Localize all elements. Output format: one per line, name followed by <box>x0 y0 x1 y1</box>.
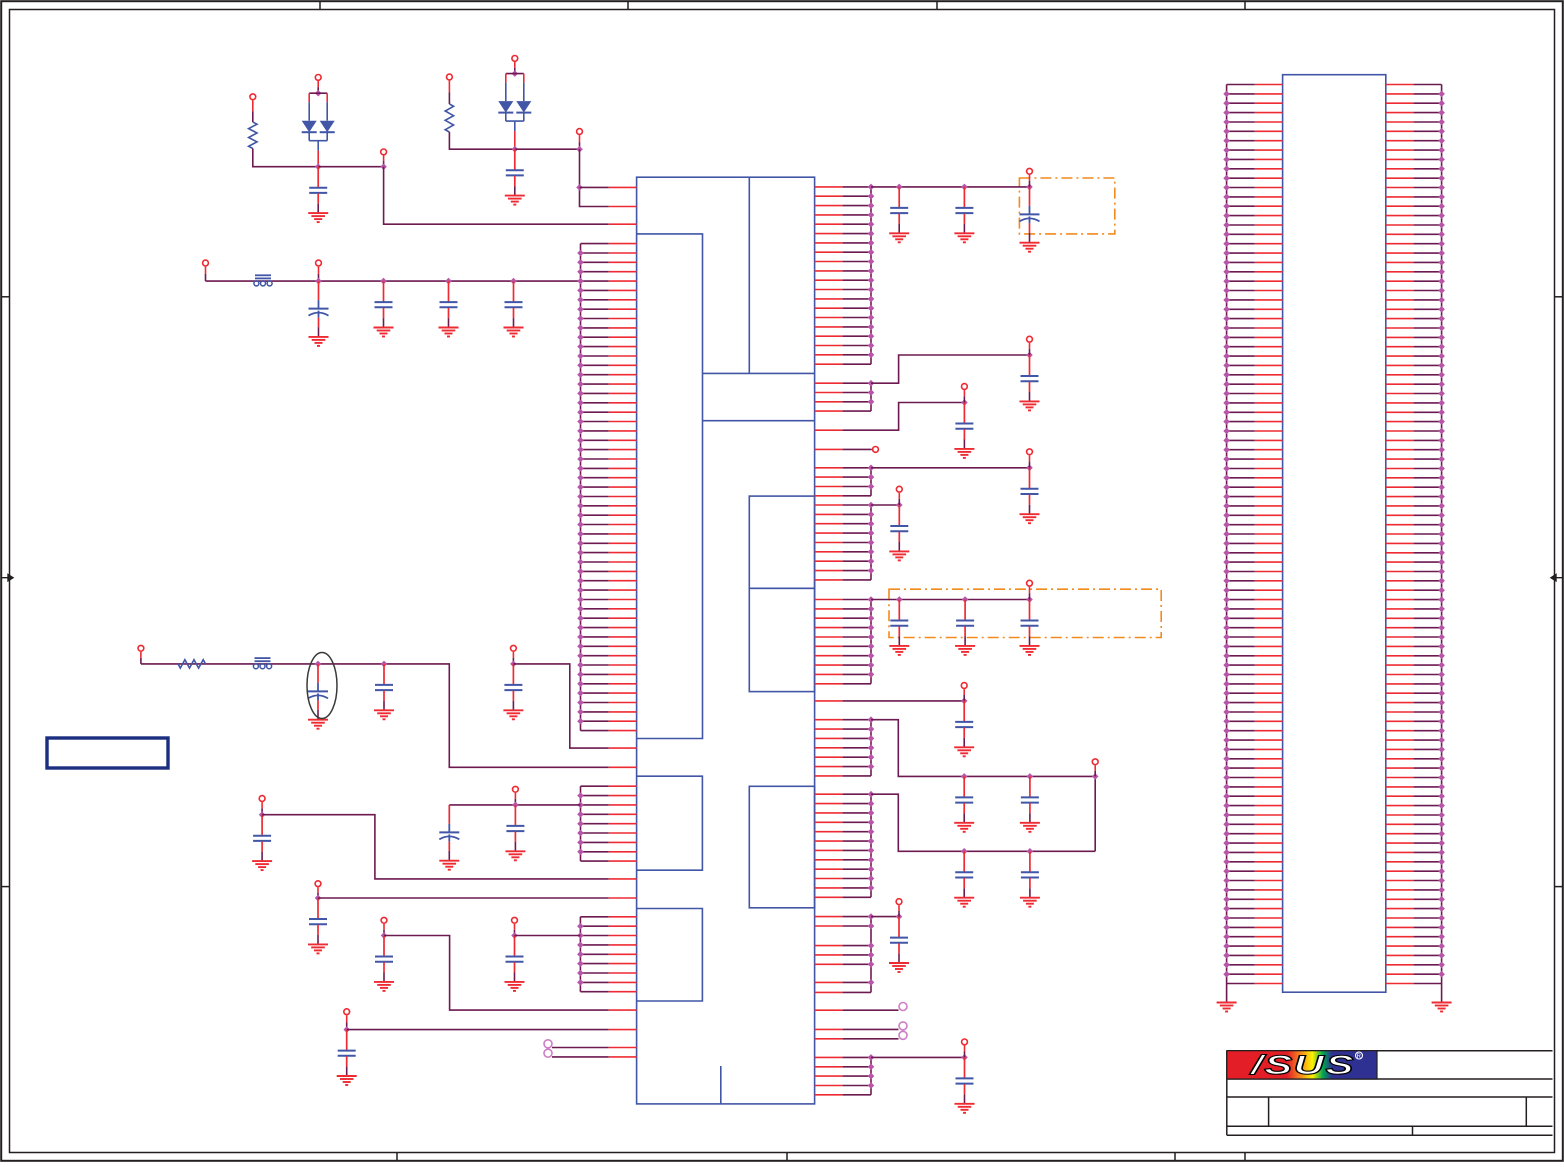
node <box>577 830 584 837</box>
bus wire LG1 <box>580 244 582 731</box>
ground <box>505 981 525 983</box>
pin <box>1386 243 1414 245</box>
pin <box>1386 814 1414 816</box>
node <box>962 596 969 603</box>
pin <box>1386 683 1414 685</box>
node <box>1223 578 1230 585</box>
wire <box>871 916 899 918</box>
capacitor <box>898 505 900 525</box>
pin <box>1386 795 1414 797</box>
pin no-connect <box>815 1009 843 1011</box>
pin <box>581 505 609 507</box>
node <box>1438 774 1445 781</box>
pin <box>815 793 843 795</box>
pin <box>1227 655 1255 657</box>
node <box>868 979 875 986</box>
capacitor <box>898 917 900 937</box>
capacitor <box>1029 355 1031 375</box>
node <box>868 1073 875 1080</box>
pin <box>815 756 843 758</box>
node <box>1223 840 1230 847</box>
ground <box>954 746 974 748</box>
node <box>1223 812 1230 819</box>
node <box>1223 353 1230 360</box>
node <box>1438 568 1445 575</box>
pin <box>815 532 843 534</box>
node <box>868 567 875 574</box>
pin <box>1386 336 1414 338</box>
wire <box>871 1056 965 1058</box>
node <box>1223 437 1230 444</box>
node <box>1223 709 1230 716</box>
ground <box>1020 400 1040 402</box>
node rail2-2 <box>381 661 388 668</box>
node <box>1223 465 1230 472</box>
border tick top <box>627 1 629 9</box>
pin <box>1227 430 1255 432</box>
node <box>1438 727 1445 734</box>
node <box>1223 774 1230 781</box>
node <box>1223 971 1230 978</box>
ground <box>374 709 394 711</box>
node <box>577 287 584 294</box>
node <box>577 512 584 519</box>
ground <box>889 645 909 647</box>
node <box>868 1082 875 1089</box>
bus wire RG5 <box>870 600 872 684</box>
wire <box>449 804 580 806</box>
node <box>1438 287 1445 294</box>
node <box>1223 119 1230 126</box>
node <box>577 634 584 641</box>
node <box>577 577 584 584</box>
bus wire RG7 <box>870 794 872 897</box>
node <box>1223 624 1230 631</box>
pin <box>1227 271 1255 273</box>
terminal L5 <box>315 881 321 887</box>
pin <box>1227 393 1255 395</box>
pin <box>581 655 609 657</box>
pin <box>815 887 843 889</box>
pin <box>581 346 609 348</box>
pin <box>1227 983 1255 985</box>
node <box>1438 306 1445 313</box>
pin <box>1386 589 1414 591</box>
pin <box>1227 486 1255 488</box>
pin <box>1227 458 1255 460</box>
node <box>1223 91 1230 98</box>
node <box>868 866 875 873</box>
ground <box>308 719 328 721</box>
pin <box>1227 973 1255 975</box>
node <box>1223 915 1230 922</box>
node <box>1223 446 1230 453</box>
node <box>868 314 875 321</box>
pin <box>580 944 608 946</box>
pin <box>1227 233 1255 235</box>
node <box>1438 212 1445 219</box>
pin <box>815 345 843 347</box>
node <box>1223 737 1230 744</box>
node <box>1223 259 1230 266</box>
pin <box>581 318 609 320</box>
node R2 <box>1026 352 1033 359</box>
pin <box>1227 112 1255 114</box>
pin <box>1386 552 1414 554</box>
pin <box>581 392 609 394</box>
pin <box>1227 383 1255 385</box>
node <box>1438 718 1445 725</box>
ic U1 inner block G <box>749 786 814 908</box>
pin <box>1386 842 1414 844</box>
node <box>868 643 875 650</box>
pin <box>815 849 843 851</box>
wire <box>262 815 609 879</box>
terminal L4 <box>513 786 519 792</box>
pin <box>1227 542 1255 544</box>
pin <box>1227 748 1255 750</box>
node <box>868 952 875 959</box>
pin <box>1386 149 1414 151</box>
node <box>868 230 875 237</box>
ground <box>1020 822 1040 824</box>
pin <box>1227 102 1255 104</box>
pin <box>1227 561 1255 563</box>
node <box>1223 587 1230 594</box>
node <box>868 606 875 613</box>
pin <box>815 627 843 629</box>
node <box>868 465 875 472</box>
pin <box>815 617 843 619</box>
no-connect circle <box>899 1022 907 1030</box>
node <box>868 754 875 761</box>
pin <box>581 785 609 787</box>
bus wire RG2 <box>870 383 872 411</box>
pin <box>581 336 609 338</box>
node <box>577 671 584 678</box>
node <box>1223 868 1230 875</box>
pin <box>1386 505 1414 507</box>
pin <box>1386 571 1414 573</box>
node <box>577 437 584 444</box>
node <box>1438 606 1445 613</box>
node <box>1223 802 1230 809</box>
node <box>1223 550 1230 557</box>
wire <box>871 794 1095 851</box>
bus wire LG2 <box>580 786 582 861</box>
pin <box>815 1075 843 1077</box>
node rail1-2 <box>380 278 387 285</box>
pin <box>581 486 609 488</box>
terminal D2 top <box>512 56 518 62</box>
pin <box>1386 327 1414 329</box>
node <box>1438 400 1445 407</box>
node <box>1223 400 1230 407</box>
pin <box>1227 346 1255 348</box>
node <box>1438 653 1445 660</box>
pin <box>1386 308 1414 310</box>
node R8 <box>961 698 968 705</box>
pin <box>1227 645 1255 647</box>
node <box>1223 231 1230 238</box>
no-connect circle <box>899 1031 907 1039</box>
pin <box>1386 833 1414 835</box>
wire <box>580 149 609 206</box>
node <box>868 810 875 817</box>
bus wire RG1 <box>870 187 872 364</box>
pin <box>1386 496 1414 498</box>
node L3 <box>259 811 266 818</box>
node <box>577 652 584 659</box>
pin <box>815 991 843 993</box>
pin <box>1227 617 1255 619</box>
pin <box>581 589 609 591</box>
node <box>577 681 584 688</box>
pin <box>581 832 609 834</box>
node <box>868 520 875 527</box>
no-connect circle <box>544 1040 552 1048</box>
node <box>868 913 875 920</box>
svg-text:/SUS: /SUS <box>1249 1050 1355 1080</box>
border tick left <box>1 296 9 298</box>
node <box>577 559 584 566</box>
pin <box>1386 233 1414 235</box>
pin <box>1227 823 1255 825</box>
ferrite bead FB2 <box>255 660 271 662</box>
node <box>868 726 875 733</box>
pin <box>1386 945 1414 947</box>
node <box>577 353 584 360</box>
node <box>577 587 584 594</box>
node rail2-3 <box>510 661 517 668</box>
node <box>868 380 875 387</box>
node <box>868 240 875 247</box>
capacitor <box>898 600 900 620</box>
pin <box>815 233 843 235</box>
node <box>868 961 875 968</box>
pin <box>1386 926 1414 928</box>
pin <box>815 335 843 337</box>
node <box>1438 531 1445 538</box>
pin <box>815 551 843 553</box>
node <box>1438 184 1445 191</box>
node <box>1438 671 1445 678</box>
node <box>1223 924 1230 931</box>
pin <box>1386 261 1414 263</box>
node <box>1223 540 1230 547</box>
node <box>1438 699 1445 706</box>
node <box>1438 634 1445 641</box>
pin <box>1386 889 1414 891</box>
capacitor <box>963 776 965 796</box>
ground <box>889 232 909 234</box>
pin <box>1227 851 1255 853</box>
node <box>1223 390 1230 397</box>
pin <box>1386 655 1414 657</box>
node <box>868 828 875 835</box>
node A2 <box>380 163 387 170</box>
pin <box>581 851 609 853</box>
pin <box>1227 730 1255 732</box>
node <box>1223 128 1230 135</box>
pin <box>1386 739 1414 741</box>
wire <box>318 166 383 168</box>
pin <box>1227 692 1255 694</box>
pin <box>1386 140 1414 142</box>
pin <box>1386 730 1414 732</box>
node <box>577 259 584 266</box>
node <box>1438 643 1445 650</box>
pin <box>815 981 843 983</box>
node <box>1223 409 1230 416</box>
pin <box>815 195 843 197</box>
node <box>1223 269 1230 276</box>
pin <box>815 636 843 638</box>
pin <box>1386 908 1414 910</box>
node <box>868 838 875 845</box>
node <box>868 221 875 228</box>
node <box>1438 709 1445 716</box>
ground <box>308 212 328 214</box>
highlight box 2 <box>889 589 1161 637</box>
pin <box>1227 861 1255 863</box>
pin no-connect <box>552 1047 609 1049</box>
node <box>1223 756 1230 763</box>
pin <box>1227 580 1255 582</box>
terminal D1 top <box>315 75 321 81</box>
pin <box>1386 627 1414 629</box>
node <box>1438 868 1445 875</box>
node <box>1438 128 1445 135</box>
pin <box>581 430 609 432</box>
node <box>1223 887 1230 894</box>
node <box>1223 690 1230 697</box>
pin <box>1386 364 1414 366</box>
node <box>1438 924 1445 931</box>
ground <box>1432 1002 1452 1004</box>
bus wire RG3 <box>870 468 872 496</box>
node <box>1223 877 1230 884</box>
node <box>1223 643 1230 650</box>
capacitor C2 <box>514 149 516 169</box>
pin <box>1386 158 1414 160</box>
node <box>577 699 584 706</box>
pin <box>1386 177 1414 179</box>
pin <box>815 1056 843 1058</box>
pin <box>815 382 843 384</box>
node <box>1438 418 1445 425</box>
node <box>1438 596 1445 603</box>
pin <box>1386 252 1414 254</box>
capacitor <box>898 187 900 207</box>
pin <box>581 252 609 254</box>
node <box>1438 737 1445 744</box>
pin <box>1227 926 1255 928</box>
wire <box>515 148 580 150</box>
node <box>1223 325 1230 332</box>
node <box>868 342 875 349</box>
terminal R4 open <box>873 447 879 453</box>
terminal L6 <box>381 917 387 923</box>
node <box>1223 634 1230 641</box>
node <box>868 942 875 949</box>
pin <box>1227 608 1255 610</box>
pin <box>1227 936 1255 938</box>
pin <box>1386 411 1414 413</box>
pin <box>1227 767 1255 769</box>
pin <box>1386 280 1414 282</box>
wire <box>449 132 514 149</box>
node <box>1438 175 1445 182</box>
node <box>1438 446 1445 453</box>
pin <box>815 513 843 515</box>
node <box>868 389 875 396</box>
pin <box>1227 889 1255 891</box>
node <box>1438 512 1445 519</box>
pin <box>815 363 843 365</box>
pin <box>815 954 843 956</box>
pin <box>815 223 843 225</box>
pin <box>1386 936 1414 938</box>
pin <box>581 261 609 263</box>
ground <box>889 550 909 552</box>
node <box>1438 240 1445 247</box>
pin <box>581 496 609 498</box>
highlight box 1 <box>1019 178 1114 234</box>
node <box>1223 475 1230 482</box>
terminal R9 <box>1092 759 1098 765</box>
node <box>1438 119 1445 126</box>
pin <box>581 645 609 647</box>
node <box>868 847 875 854</box>
border tick bottom <box>1174 1153 1176 1161</box>
node <box>577 568 584 575</box>
pin <box>581 458 609 460</box>
pin <box>1227 93 1255 95</box>
pin <box>1227 664 1255 666</box>
terminal L3 <box>259 796 265 802</box>
terminal L7 <box>512 917 518 923</box>
bus wire RG6 <box>870 720 872 776</box>
ground <box>504 327 524 329</box>
pin <box>815 821 843 823</box>
pin <box>815 916 843 918</box>
node <box>1438 231 1445 238</box>
bus wire LG3 <box>579 917 581 992</box>
pin <box>1386 224 1414 226</box>
node <box>868 652 875 659</box>
node <box>1438 222 1445 229</box>
node <box>577 549 584 556</box>
pin <box>1386 533 1414 535</box>
pin <box>1386 964 1414 966</box>
node <box>1438 428 1445 435</box>
node <box>1223 962 1230 969</box>
node <box>577 493 584 500</box>
node <box>1223 952 1230 959</box>
ground <box>374 981 394 983</box>
pin <box>815 664 843 666</box>
node <box>1223 512 1230 519</box>
pin <box>1227 758 1255 760</box>
node <box>1223 334 1230 341</box>
node <box>896 184 903 191</box>
pin <box>815 242 843 244</box>
pin <box>815 504 843 506</box>
ground <box>337 1075 357 1077</box>
terminal R6 <box>896 486 902 492</box>
node <box>1223 484 1230 491</box>
